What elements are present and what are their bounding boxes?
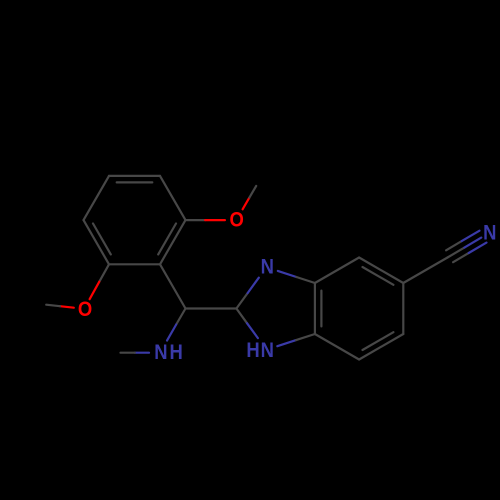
inner A5=A6 <box>93 224 111 255</box>
bond C2-N1 <box>236 309 247 324</box>
nitrile center line (half 2) <box>464 238 481 248</box>
svg-text:H: H <box>246 339 259 362</box>
bond N3-Ctf (half 2) <box>296 277 315 283</box>
nitrile upper line (half 2) <box>462 231 480 241</box>
inner A3=A4 <box>117 181 153 183</box>
bond Ctf-T <box>315 258 359 284</box>
bond NA-M3 (half 2) <box>121 352 135 354</box>
svg-text:N: N <box>154 341 167 364</box>
bond A2-A3 <box>160 176 186 220</box>
bond TR-BR <box>402 283 404 334</box>
bond Ctf-Cbf <box>314 283 316 334</box>
bond A2-O1 <box>186 219 206 221</box>
svg-text:N: N <box>261 255 274 278</box>
bond NA-M3 <box>135 352 149 354</box>
nitrile lower line (half 2) <box>469 243 487 253</box>
bond A6-O2 <box>99 264 109 281</box>
bond CH-NA (half 2) <box>167 325 176 341</box>
bond A6-O2 (half 2) <box>90 282 100 300</box>
bond A2-O1 (half 2) <box>205 219 225 221</box>
bond A4-A5 <box>84 176 110 220</box>
nitrile lower line <box>453 253 469 262</box>
bond A5-A6 <box>84 220 110 264</box>
inner A1=A2 <box>158 224 176 255</box>
bond O2-M2 (half 2) <box>46 305 60 307</box>
bond A6-A1 <box>109 263 160 265</box>
bond N1-Cbf (half 2) <box>296 334 315 340</box>
svg-text:O: O <box>230 208 244 231</box>
bond A3-A4 <box>109 175 160 177</box>
svg-text:O: O <box>78 298 92 321</box>
bond TR-CNC <box>403 258 447 284</box>
inner Ctf=Cbf <box>320 291 322 327</box>
bond O2-M2 <box>60 306 74 308</box>
svg-text:H: H <box>169 341 182 364</box>
bond A1-A2 <box>160 220 186 264</box>
bond C2-N3 <box>236 293 247 308</box>
bond O1-M1 (half 2) <box>249 186 256 198</box>
bond B-Cbf <box>315 334 359 360</box>
bond A1-CH <box>160 264 186 308</box>
bond CH-NA <box>176 309 185 325</box>
svg-text:N: N <box>483 221 496 244</box>
bond C2-N1 (half 2) <box>247 323 258 338</box>
inner T=TR <box>363 267 394 285</box>
bond BR-B <box>359 334 403 360</box>
bond T-TR <box>359 258 403 284</box>
bond N1-Cbf <box>277 340 296 346</box>
bond N3-Ctf <box>278 271 297 277</box>
bond CH-C2 <box>186 307 237 309</box>
inner BR=B <box>363 332 394 350</box>
nitrile center line <box>448 248 465 258</box>
svg-text:N: N <box>261 339 274 362</box>
bond C2-N3 (half 2) <box>248 278 259 293</box>
bond O1-M1 <box>243 198 250 210</box>
nitrile upper line <box>446 241 462 250</box>
